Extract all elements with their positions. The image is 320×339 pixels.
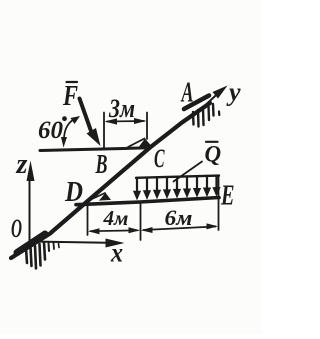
load right edge vertical [218, 176, 220, 230]
beam DE [76, 198, 219, 205]
force F vector [80, 99, 92, 132]
svg-text:z: z [16, 149, 28, 180]
support bar at O [17, 234, 45, 253]
dim 3m extension lines [103, 113, 105, 149]
svg-text:6м: 6м [165, 205, 193, 230]
hatching at O [26, 248, 27, 263]
svg-text:B: B [95, 149, 108, 179]
svg-text:F: F [62, 81, 78, 112]
gusset at D [88, 193, 106, 201]
svg-text:O: O [11, 214, 22, 243]
angle arc 60deg [64, 119, 75, 142]
gusset at C [128, 139, 145, 148]
svg-text:Q: Q [205, 142, 222, 167]
svg-text:3м: 3м [108, 94, 135, 123]
dim 3m line with arrows [107, 120, 144, 123]
svg-text:D: D [64, 177, 83, 208]
svg-text:C: C [154, 144, 165, 173]
svg-text:4м: 4м [103, 206, 129, 230]
rod OA (bar along axis y) [11, 103, 210, 258]
hatching at A [192, 112, 195, 125]
distributed load Q top line [136, 176, 219, 178]
axis z [29, 172, 31, 245]
svg-text:x: x [110, 238, 123, 268]
dim 4m line [91, 229, 138, 232]
beam BC [40, 148, 150, 151]
dim 6m line [144, 227, 216, 231]
axis x [32, 242, 107, 243]
load arrows [137, 176, 217, 192]
dim 4m 6m extension lines [87, 206, 89, 235]
svg-text:E: E [220, 181, 234, 212]
svg-text:y: y [226, 78, 241, 107]
svg-text:60: 60 [38, 117, 64, 144]
axis y arrow [206, 92, 220, 105]
support bar at A [184, 96, 209, 110]
